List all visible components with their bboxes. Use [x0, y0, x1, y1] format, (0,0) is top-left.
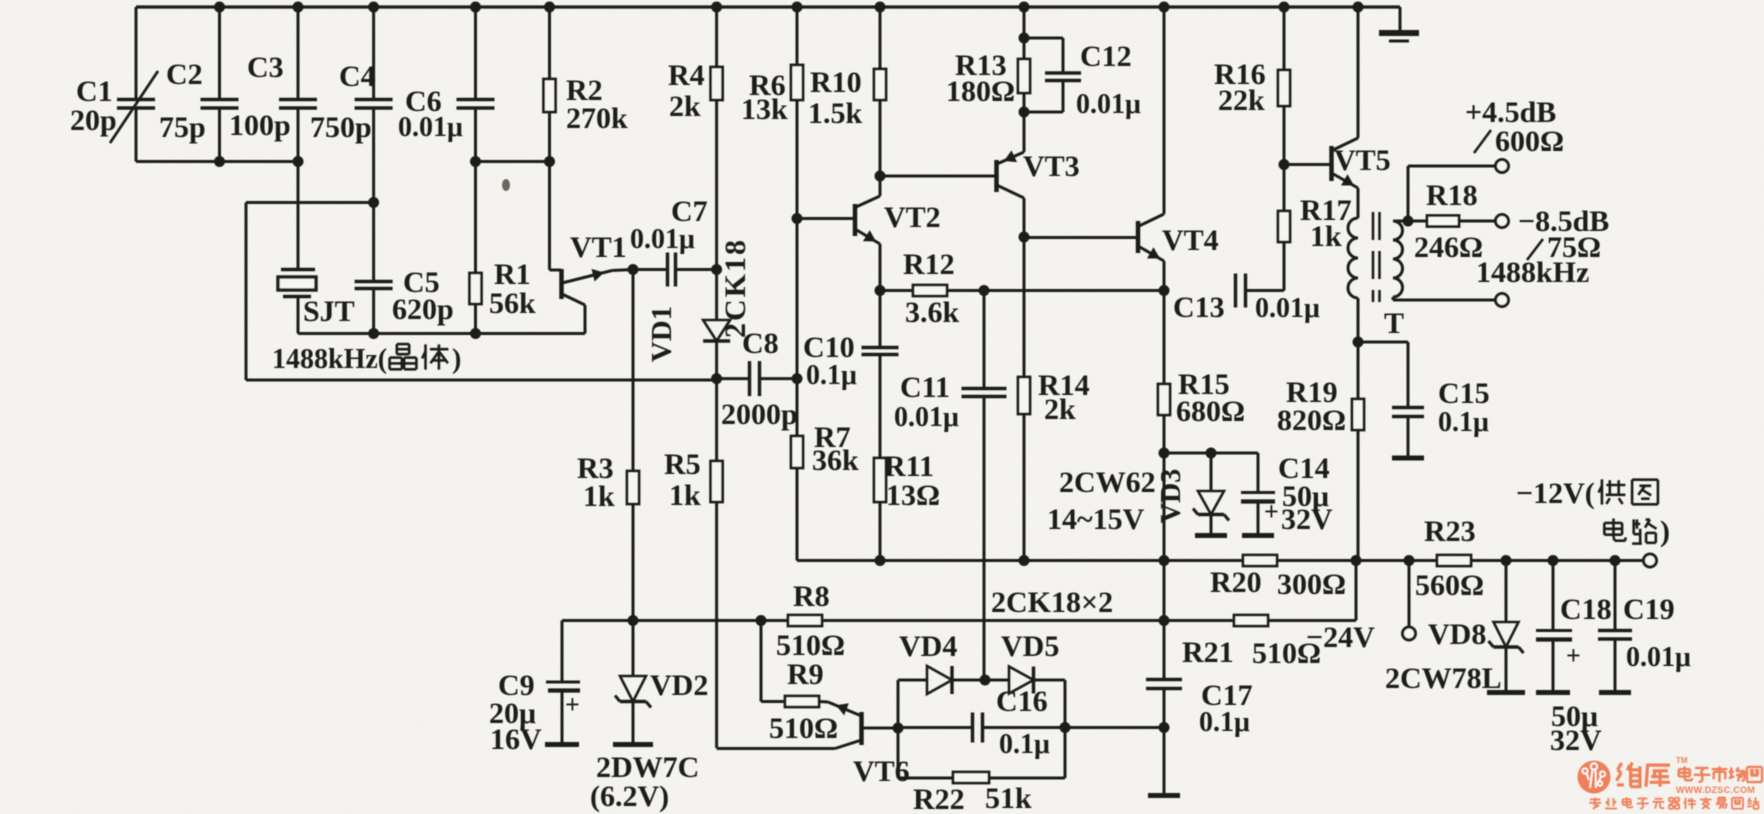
svg-text:0.1μ: 0.1μ	[999, 729, 1050, 760]
resistor R1 56k	[474, 162, 477, 274]
node VT1 emitter / C7 / R3	[628, 264, 639, 275]
resistor R9 510ohm	[760, 621, 763, 702]
transformer T primary coil	[1348, 218, 1358, 298]
capacitor C9 20u 16V (electrolytic)	[561, 621, 564, 682]
svg-text:510Ω: 510Ω	[769, 712, 838, 745]
watermark logo	[1578, 761, 1611, 794]
top +supply rail	[136, 5, 1400, 8]
resistor R23 560ohm	[1437, 555, 1471, 566]
capacitor C4 750p	[372, 7, 375, 99]
svg-text:): )	[1660, 515, 1670, 548]
output +4.5dB/600ohm	[1407, 166, 1410, 221]
zener VD8 2CW78L	[1505, 561, 1508, 623]
resistor R5 1k	[715, 379, 718, 461]
svg-text:VD1: VD1	[646, 306, 678, 362]
capacitor C18 50u 32V (electrolytic)	[1552, 561, 1555, 631]
diode VD5 2CK18	[985, 679, 1009, 682]
svg-text:VD2: VD2	[650, 669, 708, 702]
svg-text:32V: 32V	[1550, 724, 1602, 757]
svg-text:36k: 36k	[812, 444, 859, 477]
node VT6 base	[893, 723, 904, 734]
svg-text:SJT: SJT	[303, 295, 355, 328]
svg-text:R23: R23	[1424, 515, 1476, 548]
resistor R17 1k	[1283, 165, 1286, 212]
svg-text:C2: C2	[166, 58, 203, 91]
svg-text:VT5: VT5	[1334, 144, 1391, 177]
svg-text:560Ω: 560Ω	[1415, 569, 1484, 602]
capacitor C5 620p	[372, 203, 375, 282]
resistor R18 246ohm	[1427, 216, 1459, 227]
resistor R8 510ohm	[788, 615, 822, 626]
scan speck	[502, 179, 510, 191]
resistor R12 3.6k	[880, 289, 913, 292]
zener VD3 2CW62	[1210, 453, 1213, 491]
resistor R11 13ohm	[874, 458, 886, 502]
svg-text:R18: R18	[1426, 179, 1478, 212]
svg-text:C3: C3	[247, 51, 284, 84]
svg-text:1.5k: 1.5k	[808, 97, 863, 130]
svg-text:+: +	[1566, 641, 1581, 670]
svg-text:0.01μ: 0.01μ	[894, 402, 959, 433]
svg-text:+: +	[565, 690, 580, 719]
svg-text:VD4: VD4	[899, 630, 957, 663]
svg-text:C16: C16	[996, 685, 1048, 718]
wire VT3-VT4 base	[1024, 236, 1138, 239]
svg-text:0.1μ: 0.1μ	[1438, 407, 1489, 438]
-24V input terminal	[1408, 561, 1411, 628]
svg-text:1k: 1k	[669, 479, 701, 512]
svg-text:VT3: VT3	[1023, 150, 1080, 183]
svg-text:TM: TM	[1676, 756, 1688, 765]
svg-text:2CK18×2: 2CK18×2	[991, 586, 1113, 619]
transistor VT5	[1329, 146, 1334, 181]
svg-text:246Ω: 246Ω	[1414, 231, 1483, 264]
svg-text:13Ω: 13Ω	[886, 479, 940, 512]
svg-text:100p: 100p	[229, 109, 291, 142]
svg-text:C13: C13	[1173, 291, 1225, 324]
svg-text:32V: 32V	[1281, 503, 1333, 536]
ground (top right)	[1399, 7, 1402, 31]
svg-text:0.01μ: 0.01μ	[630, 224, 695, 255]
svg-text:WWW.DZSC.COM: WWW.DZSC.COM	[1676, 785, 1755, 795]
bottom supply rail y=560	[797, 559, 1243, 562]
transistor VT3 (PNP)	[1023, 112, 1026, 152]
wire line A left (C1-C2-C3 bottom)	[136, 160, 298, 163]
svg-text:620p: 620p	[392, 293, 454, 326]
resistor R20 300ohm (in rail)	[1243, 555, 1277, 566]
node VD4/VD5/C11	[980, 675, 991, 686]
svg-text:0.01μ: 0.01μ	[1076, 89, 1141, 120]
svg-text:−12V(: −12V(	[1516, 477, 1595, 510]
transistor VT1	[550, 269, 562, 272]
capacitor C13 0.01u	[1234, 274, 1237, 308]
svg-text:C12: C12	[1080, 40, 1132, 73]
capacitor C6 0.01u	[474, 7, 477, 99]
capacitor C17 0.1u	[1163, 621, 1166, 680]
wire C17 branch / node	[1163, 561, 1166, 621]
svg-text:0.01μ: 0.01μ	[1255, 293, 1320, 324]
svg-text:VD3: VD3	[1156, 469, 1187, 523]
capacitor C1 (variable, 20p)	[135, 7, 138, 99]
svg-text:180Ω: 180Ω	[946, 75, 1015, 108]
node VT4 emitter / R12 line / R15 / C13	[1159, 285, 1170, 296]
capacitor C16 0.1u	[898, 726, 973, 729]
svg-text:3.6k: 3.6k	[905, 296, 960, 329]
diode VD4 2CK18	[897, 680, 900, 778]
svg-text:0.1μ: 0.1μ	[1199, 707, 1250, 738]
svg-text:300Ω: 300Ω	[1277, 568, 1346, 601]
svg-text:1488kHz(: 1488kHz(	[272, 344, 387, 375]
capacitor C8 2000p	[717, 377, 749, 380]
capacitor C10 0.1u	[879, 291, 882, 348]
svg-text:VT1: VT1	[570, 231, 627, 264]
svg-text:56k: 56k	[489, 287, 536, 320]
svg-text:R21: R21	[1182, 636, 1234, 669]
svg-text:270k: 270k	[566, 102, 628, 135]
capacitor C7 0.01u	[633, 268, 667, 271]
svg-text:R8: R8	[793, 580, 830, 613]
svg-text:0.01μ: 0.01μ	[1626, 642, 1691, 673]
resistor R13 180ohm	[1019, 2, 1030, 13]
svg-text:2CW78L: 2CW78L	[1385, 662, 1502, 695]
svg-text:750p: 750p	[310, 111, 372, 144]
capacitor C12 0.01u	[1024, 37, 1063, 40]
svg-text:C18: C18	[1560, 593, 1612, 626]
bottom feedback wire y=333 to VT1 collector	[298, 332, 585, 335]
svg-text:2CK18: 2CK18	[719, 238, 752, 338]
svg-text:680Ω: 680Ω	[1176, 395, 1245, 428]
svg-text:VT4: VT4	[1162, 224, 1219, 257]
resistor R14 2k	[1023, 237, 1026, 377]
svg-text:(6.2V): (6.2V)	[590, 780, 669, 813]
svg-text:0.01μ: 0.01μ	[398, 112, 463, 143]
capacitor C3 100p	[297, 7, 300, 99]
resistor R22 51k	[898, 777, 953, 780]
capacitor C11 0.01u	[983, 291, 986, 389]
resistor R15 680ohm	[1163, 291, 1166, 385]
resistor R16 22k	[1279, 2, 1290, 13]
svg-text:R10: R10	[810, 66, 862, 99]
transformer core	[1372, 212, 1375, 302]
svg-text:C19: C19	[1623, 593, 1675, 626]
svg-text:VD8: VD8	[1428, 618, 1486, 651]
svg-text:20p: 20p	[70, 104, 117, 137]
svg-text:): )	[452, 344, 461, 375]
svg-text:2CW62: 2CW62	[1059, 466, 1156, 499]
resistor R7 36k	[796, 379, 799, 436]
svg-text:1k: 1k	[1310, 220, 1342, 253]
feedback loop wire (crystal box)	[246, 201, 374, 204]
zener VD2 2DW7C (6.2V)	[632, 621, 635, 677]
svg-text:75p: 75p	[159, 111, 206, 144]
svg-text:VT2: VT2	[884, 201, 941, 234]
capacitor C2 75p	[218, 7, 221, 99]
resistor R3 1k	[632, 270, 635, 472]
svg-text:0.1μ: 0.1μ	[806, 360, 857, 391]
resistor R10 1.5k	[875, 2, 886, 13]
node VT2 emitter / R12 / C10	[875, 285, 886, 296]
wire line A right (C6-R2)	[476, 160, 550, 163]
transistor VT2	[853, 204, 858, 236]
capacitor C19 0.01u	[1614, 561, 1617, 631]
resistor R4 2k	[711, 2, 722, 13]
svg-text:600Ω: 600Ω	[1495, 125, 1564, 158]
svg-text:R5: R5	[664, 448, 701, 481]
resistor R21 510ohm	[1234, 615, 1268, 626]
crystal SJT 1488kHz	[297, 162, 300, 270]
diode VD1 2CK18	[715, 270, 718, 321]
lower bias rail y=620 (R8/R21)	[562, 619, 788, 622]
svg-text:1488kHz: 1488kHz	[1476, 256, 1589, 289]
svg-text:C15: C15	[1438, 377, 1490, 410]
node secondary top / R18	[1403, 216, 1414, 227]
svg-text:R22: R22	[913, 783, 965, 814]
capacitor C14 50u 32V (electrolytic)	[1257, 453, 1260, 492]
svg-text:2000p: 2000p	[721, 398, 798, 431]
transformer secondary coil	[1393, 221, 1403, 297]
svg-text:VT6: VT6	[853, 755, 910, 788]
svg-text:16V: 16V	[490, 723, 542, 756]
node R12/C11	[979, 285, 990, 296]
resistor R19 820ohm	[1357, 342, 1360, 399]
resistor R6 13k	[792, 2, 803, 13]
svg-text:1k: 1k	[583, 480, 615, 513]
resistor R2 270k	[548, 7, 551, 79]
wire R15 bottom to rail	[1163, 453, 1166, 561]
node transformer primary bottom / R19 / C15	[1353, 337, 1364, 348]
svg-text:14~15V: 14~15V	[1047, 503, 1145, 536]
svg-text:C8: C8	[742, 327, 779, 360]
svg-text:+: +	[1264, 497, 1279, 526]
node R15 bottom / zener VD3 / C14	[1159, 448, 1170, 459]
svg-text:C11: C11	[900, 371, 950, 404]
transistor VT4	[1136, 221, 1141, 253]
svg-text:51k: 51k	[985, 782, 1032, 814]
svg-text:T: T	[1384, 307, 1404, 340]
svg-text:R12: R12	[903, 248, 955, 281]
svg-text:2k: 2k	[1044, 393, 1076, 426]
svg-text:820Ω: 820Ω	[1277, 404, 1346, 437]
transistor VT6	[859, 712, 864, 745]
svg-text:C4: C4	[339, 60, 376, 93]
svg-text:VD5: VD5	[1001, 630, 1059, 663]
svg-text:13k: 13k	[741, 93, 788, 126]
svg-text:510Ω: 510Ω	[1252, 637, 1321, 670]
node VT3 collector / R14 / VT4 base	[1019, 232, 1030, 243]
svg-text:22k: 22k	[1218, 84, 1265, 117]
svg-text:2k: 2k	[669, 90, 701, 123]
svg-text:R9: R9	[787, 658, 824, 691]
svg-text:R4: R4	[668, 59, 705, 92]
capacitor C15 0.1u	[1358, 341, 1408, 344]
svg-text:R20: R20	[1210, 566, 1262, 599]
